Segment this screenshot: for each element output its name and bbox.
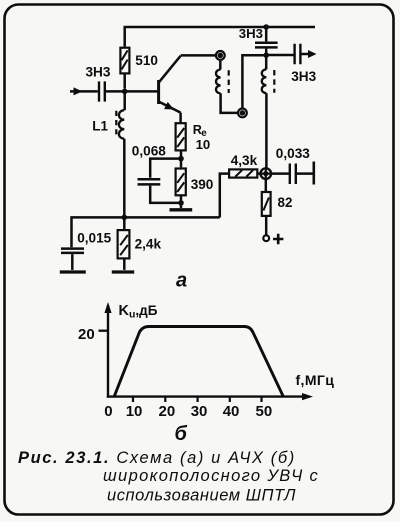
svg-text:L1: L1	[92, 118, 108, 133]
svg-text:б: б	[175, 423, 188, 445]
y tick 20	[99, 330, 109, 332]
chart axes	[99, 302, 314, 402]
ground below 2,4k	[112, 270, 134, 273]
svg-text:Ku,дБ: Ku,дБ	[119, 303, 158, 321]
transformer T1 terminal top	[216, 51, 225, 60]
wire bottom rail	[72, 217, 220, 247]
x axis labels	[104, 403, 272, 420]
ground below 390	[170, 203, 193, 210]
resistor 510	[120, 48, 129, 89]
resistor 4,3k	[220, 169, 261, 217]
svg-text:3Н3: 3Н3	[239, 26, 263, 41]
resistor 2,4k	[118, 217, 130, 270]
svg-text:0,033: 0,033	[276, 146, 310, 161]
node B (390 bottom)	[178, 200, 184, 206]
transformer T1 terminal bottom	[238, 109, 247, 118]
label Re 10	[193, 123, 210, 152]
capacitor 3H3 output	[266, 44, 316, 64]
svg-text:3Н3: 3Н3	[291, 69, 316, 84]
svg-text:30: 30	[191, 403, 208, 420]
svg-text:40: 40	[223, 403, 240, 420]
svg-text:510: 510	[135, 53, 158, 68]
wire T1 bottom to node N2	[242, 55, 266, 108]
svg-text:10: 10	[126, 403, 143, 420]
svg-text:82: 82	[278, 195, 293, 210]
capacitor 3H3 top	[255, 27, 278, 55]
node X crossing junction	[261, 168, 272, 179]
svg-text:20: 20	[78, 326, 95, 343]
svg-text:2,4k: 2,4k	[135, 237, 162, 252]
svg-text:f,МГц: f,МГц	[296, 372, 335, 388]
capacitor C1 3H3 input	[99, 81, 157, 101]
node N2 junction	[263, 52, 269, 58]
svg-text:10: 10	[196, 137, 211, 152]
node rail/L1 junction	[122, 215, 128, 221]
svg-text:3Н3: 3Н3	[86, 65, 111, 80]
input terminal arrow	[70, 87, 98, 95]
svg-text:широкополосного УВЧ с: широкополосного УВЧ с	[103, 467, 319, 485]
wire collector to T1	[181, 54, 216, 57]
node base junction	[122, 89, 128, 95]
frequency response curve	[114, 327, 284, 398]
svg-text:0,015: 0,015	[77, 231, 111, 246]
svg-text:0: 0	[104, 403, 112, 420]
svg-text:0,068: 0,068	[132, 144, 166, 159]
wire top supply rail	[125, 27, 315, 47]
inductor L1	[116, 91, 124, 217]
ground below 0,015	[60, 270, 86, 273]
svg-text:50: 50	[256, 403, 273, 420]
node A (Re/390 junction)	[178, 156, 184, 162]
node top rail junction	[263, 24, 269, 30]
svg-text:390: 390	[191, 177, 214, 192]
svg-text:а: а	[176, 270, 187, 292]
resistor 390	[176, 159, 186, 203]
x ticks	[133, 397, 262, 402]
capacitor 0,033	[271, 162, 314, 185]
resistor Re	[176, 123, 186, 158]
resistor 82	[262, 179, 271, 235]
capacitor 0,015	[61, 249, 84, 270]
capacitor 0,068	[138, 159, 182, 203]
transistor VT1	[159, 56, 181, 123]
supply terminal +	[263, 234, 283, 244]
svg-text:20: 20	[159, 403, 176, 420]
svg-text:использованием ШПТЛ: использованием ШПТЛ	[107, 487, 296, 505]
transformer T2 winding	[262, 55, 275, 168]
transformer T1 winding	[216, 60, 238, 113]
svg-text:4,3k: 4,3k	[231, 153, 258, 168]
svg-text:Рис. 23.1. Схема (а) и АЧХ (б): Рис. 23.1. Схема (а) и АЧХ (б)	[18, 449, 296, 467]
